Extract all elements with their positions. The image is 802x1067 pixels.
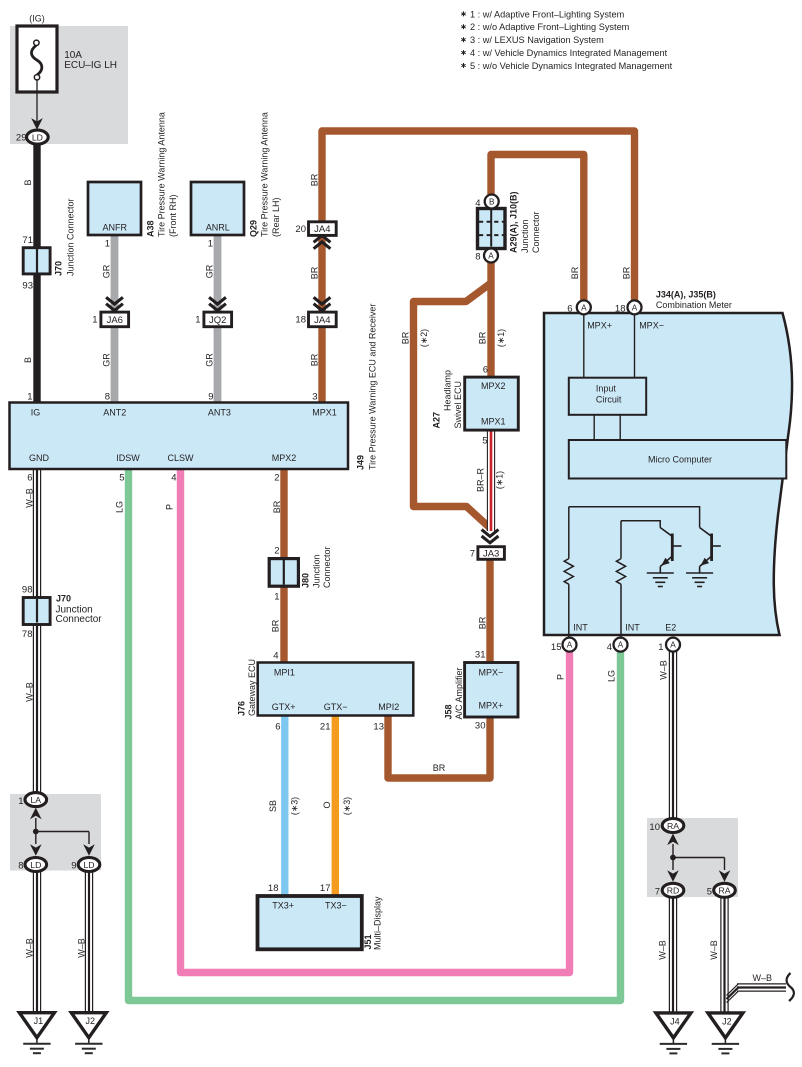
ground distribution gray block right — [647, 818, 738, 897]
splice wiring right — [672, 844, 674, 858]
svg-text:(∗1): (∗1) — [495, 471, 505, 489]
wire W-B branch from J2 wire — [737, 983, 786, 985]
svg-text:6: 6 — [275, 722, 280, 733]
svg-text:MPX2: MPX2 — [272, 453, 297, 463]
svg-text:1: 1 — [27, 392, 32, 403]
splice LD 8 — [25, 858, 47, 872]
wire P J49 CLSW to Combination Meter INT — [181, 468, 570, 973]
connector JA4 lower — [309, 312, 337, 327]
A/C Amplifier J58 — [465, 663, 518, 718]
svg-text:Circuit: Circuit — [596, 395, 622, 405]
svg-text:8: 8 — [475, 252, 480, 263]
svg-text:30: 30 — [475, 721, 486, 732]
svg-text:(∗3): (∗3) — [290, 797, 300, 815]
Multi-Display J51 — [258, 896, 362, 949]
svg-text:(Front RH): (Front RH) — [168, 194, 178, 237]
antenna ANRL Q29 — [191, 182, 244, 235]
svg-text:J34(A), J35(B): J34(A), J35(B) — [656, 290, 716, 300]
wire SB (*3) Gateway GTX+ to Multi-Display TX3+ — [281, 715, 288, 897]
svg-text:A: A — [618, 641, 624, 650]
svg-text:18: 18 — [268, 883, 279, 894]
svg-text:W–B: W–B — [659, 660, 669, 680]
svg-text:MPX2: MPX2 — [481, 381, 506, 391]
svg-text:MPI1: MPI1 — [274, 667, 295, 677]
splice RA 5 — [714, 883, 736, 897]
svg-text:(IG): (IG) — [29, 14, 45, 24]
svg-text:1: 1 — [208, 239, 213, 250]
connector JQ2 — [204, 312, 232, 327]
wire W-B J70 to splice LA — [33, 624, 40, 794]
svg-text:LG: LG — [115, 501, 125, 513]
svg-text:13: 13 — [373, 722, 384, 733]
fuse ECU-IG LH box — [17, 26, 57, 92]
svg-text:W–B: W–B — [709, 940, 719, 960]
internal wire to transistor Q2 — [569, 507, 700, 528]
svg-text:SB: SB — [268, 800, 278, 812]
svg-text:GTX−: GTX− — [324, 702, 348, 712]
splice RD 7 — [662, 883, 684, 897]
ground J2 right — [708, 1013, 743, 1038]
micro computer block — [569, 440, 787, 479]
wire BR J49 MPX2 via J80 to Gateway ECU MPI1 — [280, 468, 287, 663]
svg-text:J58: J58 — [444, 704, 454, 719]
svg-text:E2: E2 — [665, 623, 676, 633]
svg-text:3 : w/ LEXUS Navigation System: 3 : w/ LEXUS Navigation System — [470, 35, 604, 45]
svg-text:Combination Meter: Combination Meter — [656, 300, 732, 310]
svg-text:Connector: Connector — [322, 546, 332, 588]
svg-text:LA: LA — [30, 795, 41, 805]
svg-text:BR: BR — [478, 331, 488, 344]
svg-text:J70: J70 — [56, 594, 71, 604]
svg-text:4: 4 — [475, 198, 480, 209]
wire LG J49 IDSW to Combination Meter INT — [129, 468, 621, 1001]
svg-text:31: 31 — [475, 650, 486, 661]
svg-text:1: 1 — [274, 592, 279, 603]
svg-text:B: B — [23, 357, 33, 363]
wire BR junction connector B to Combination Meter MPX+ — [491, 155, 584, 305]
svg-text:GND: GND — [29, 453, 50, 463]
svg-text:W–B: W–B — [25, 682, 35, 702]
svg-text:2 : w/o Adaptive Front–Lightin: 2 : w/o Adaptive Front–Lighting System — [470, 22, 630, 32]
splice wiring left — [35, 818, 37, 832]
svg-text:MPX1: MPX1 — [312, 408, 337, 418]
pin circle 6 — [577, 300, 591, 314]
wire input to micro 2 — [619, 415, 621, 440]
svg-text:1: 1 — [105, 239, 110, 250]
svg-text:17: 17 — [320, 883, 331, 894]
svg-text:TX3−: TX3− — [325, 901, 347, 911]
svg-text:J2: J2 — [86, 1016, 96, 1026]
wire BR (*1) junction connector A to Headlamp Swivel ECU MPX2 — [487, 258, 494, 378]
svg-text:BR: BR — [478, 616, 488, 629]
junction connector A29(A) J10(B) grid — [478, 209, 506, 249]
svg-text:29: 29 — [16, 133, 27, 144]
svg-text:J76: J76 — [237, 701, 247, 716]
pin circle 1 — [666, 638, 680, 652]
svg-text:B: B — [489, 198, 495, 207]
svg-text:Tire Pressure Warning Antenna: Tire Pressure Warning Antenna — [157, 112, 167, 237]
svg-text:BR: BR — [401, 331, 411, 344]
svg-text:LG: LG — [607, 670, 617, 682]
svg-text:J70: J70 — [54, 261, 64, 276]
svg-text:MPX1: MPX1 — [481, 417, 506, 427]
svg-text:2: 2 — [274, 546, 279, 557]
svg-text:BR: BR — [570, 266, 580, 279]
continuation squiggle — [787, 973, 794, 1001]
wire W-B Combination Meter E2 to splice RA — [669, 651, 676, 819]
wire BR J49 MPX1 via JA4 to Combination Meter MPX- — [322, 131, 635, 403]
pin B circle — [485, 195, 499, 209]
ground Q1 — [647, 572, 674, 574]
wire BR JA3 to A/C Amplifier MPX- — [486, 557, 493, 663]
splice RA 10 — [662, 819, 684, 833]
svg-text:BR: BR — [622, 266, 632, 279]
pin circle 15 — [563, 638, 577, 652]
svg-text:GR: GR — [102, 264, 112, 278]
svg-text:A27: A27 — [432, 412, 442, 429]
svg-text:93: 93 — [22, 281, 33, 292]
svg-text:5 : w/o Vehicle Dynamics Integ: 5 : w/o Vehicle Dynamics Integrated Mana… — [470, 61, 673, 71]
wire input to micro 1 — [593, 415, 595, 440]
svg-text:BR: BR — [310, 266, 320, 279]
svg-text:Headlamp: Headlamp — [443, 370, 453, 411]
connector JA3 — [478, 547, 505, 560]
wire W-B splice LD to ground J2 — [85, 871, 92, 1013]
wire BR (*2) bypass loop to JA3 — [414, 283, 492, 528]
svg-text:6: 6 — [567, 304, 572, 315]
svg-text:J2: J2 — [722, 1016, 732, 1026]
svg-text:A29(A), J10(B): A29(A), J10(B) — [509, 191, 519, 253]
svg-text:(∗1): (∗1) — [496, 329, 506, 347]
svg-text:BR–R: BR–R — [476, 468, 486, 493]
svg-text:A38: A38 — [146, 220, 156, 237]
svg-text:J49: J49 — [356, 455, 366, 470]
ECU J49 Tire Pressure Warning ECU and Receiver — [10, 403, 349, 470]
arrow into JA4 lower — [314, 297, 331, 310]
svg-text:Micro Computer: Micro Computer — [648, 455, 712, 465]
svg-text:7: 7 — [470, 549, 475, 560]
ground J1 — [19, 1013, 54, 1038]
junction connector J70 lower — [23, 598, 50, 625]
svg-text:BR: BR — [272, 500, 282, 513]
resistor R2 — [620, 521, 622, 559]
svg-text:78: 78 — [22, 629, 33, 640]
svg-text:CLSW: CLSW — [167, 453, 194, 463]
svg-text:Input: Input — [596, 384, 617, 394]
svg-text:5: 5 — [119, 473, 124, 484]
svg-text:9: 9 — [71, 861, 76, 872]
svg-text:J4: J4 — [670, 1016, 680, 1026]
ground J4 — [656, 1013, 691, 1038]
wire W-B splice LD to ground J1 — [33, 871, 40, 1013]
svg-text:JA4: JA4 — [314, 224, 330, 235]
svg-text:4: 4 — [607, 642, 612, 653]
internal wire to transistor Q1 — [621, 521, 660, 528]
svg-text:J1: J1 — [34, 1016, 44, 1026]
svg-text:ECU–IG LH: ECU–IG LH — [64, 60, 117, 71]
svg-text:5: 5 — [482, 436, 487, 447]
notes legend — [463, 11, 465, 16]
svg-text:21: 21 — [320, 722, 331, 733]
svg-text:MPI2: MPI2 — [378, 702, 399, 712]
svg-text:A: A — [670, 641, 676, 650]
svg-text:JA4: JA4 — [314, 315, 330, 326]
svg-text:ANT2: ANT2 — [103, 408, 126, 418]
svg-text:P: P — [556, 674, 566, 680]
pin circle 4 — [614, 638, 628, 652]
arrow into JA3 — [482, 530, 499, 543]
svg-text:Swivel ECU: Swivel ECU — [453, 381, 463, 429]
svg-text:JA6: JA6 — [107, 315, 123, 326]
svg-text:4: 4 — [273, 651, 278, 662]
svg-text:JQ2: JQ2 — [209, 315, 226, 326]
svg-text:TX3+: TX3+ — [272, 901, 294, 911]
svg-text:4: 4 — [171, 473, 176, 484]
svg-text:MPX+: MPX+ — [479, 701, 504, 711]
transistor Q1 — [660, 528, 671, 536]
splice LD 9 — [78, 858, 100, 872]
power source gray block (IG) — [10, 26, 128, 144]
connector JA4 upper — [309, 222, 337, 236]
svg-text:RD: RD — [667, 886, 680, 896]
svg-text:LD: LD — [83, 860, 94, 870]
svg-text:Junction Connector: Junction Connector — [66, 198, 76, 276]
svg-text:A: A — [488, 252, 494, 261]
wire BR A/C Amplifier MPX+ to Gateway ECU MPI2 — [388, 716, 490, 778]
svg-text:18: 18 — [295, 315, 306, 326]
arrow into LD 8 — [30, 844, 42, 856]
svg-text:BR: BR — [433, 763, 446, 773]
svg-text:6: 6 — [27, 473, 32, 484]
svg-text:8: 8 — [18, 861, 23, 872]
svg-text:J80: J80 — [301, 573, 311, 588]
svg-text:B: B — [23, 179, 33, 185]
svg-text:20: 20 — [295, 224, 306, 235]
svg-text:(∗3): (∗3) — [342, 797, 352, 815]
ECU A27 Headlamp Swivel — [465, 377, 519, 430]
svg-text:W–B: W–B — [77, 938, 87, 958]
svg-text:W–B: W–B — [658, 940, 668, 960]
wire O (*3) Gateway GTX- to Multi-Display TX3- — [332, 715, 339, 897]
svg-text:ANT3: ANT3 — [208, 408, 231, 418]
svg-text:A: A — [632, 304, 638, 313]
svg-text:IDSW: IDSW — [116, 453, 140, 463]
svg-text:Q29: Q29 — [249, 220, 259, 237]
svg-text:Tire Pressure Warning ECU and: Tire Pressure Warning ECU and Receiver — [368, 304, 378, 470]
svg-text:Junction: Junction — [520, 219, 530, 253]
svg-text:6: 6 — [483, 365, 488, 376]
svg-text:LD: LD — [32, 132, 43, 142]
Combination Meter J34/J35 body — [544, 313, 792, 635]
svg-text:7: 7 — [655, 887, 660, 898]
svg-text:98: 98 — [22, 585, 33, 596]
svg-text:ANFR: ANFR — [102, 223, 127, 233]
svg-text:RA: RA — [667, 821, 679, 831]
splice LA — [25, 793, 47, 807]
svg-text:A: A — [581, 304, 587, 313]
ground J2 left — [71, 1013, 106, 1038]
svg-text:ANRL: ANRL — [206, 223, 230, 233]
svg-text:W–B: W–B — [25, 938, 35, 958]
ground Q2 — [686, 572, 713, 574]
svg-text:GR: GR — [205, 264, 215, 278]
fuse element — [31, 45, 41, 75]
ground distribution gray block left — [10, 794, 101, 871]
svg-text:3: 3 — [312, 392, 317, 403]
wire W-B splice RD to ground J4 — [669, 896, 676, 1013]
svg-text:9: 9 — [208, 392, 213, 403]
svg-text:Gateway ECU: Gateway ECU — [247, 659, 257, 716]
svg-text:BR: BR — [310, 173, 320, 186]
svg-text:4 : w/ Vehicle Dynamics Integr: 4 : w/ Vehicle Dynamics Integrated Manag… — [470, 48, 668, 58]
connector JA6 — [101, 312, 129, 327]
svg-text:MPX+: MPX+ — [587, 321, 612, 331]
svg-text:RA: RA — [718, 886, 730, 896]
svg-text:8: 8 — [105, 392, 110, 403]
wire B (black) fuse to J49 IG — [33, 141, 40, 403]
arrow into RD 7 — [667, 870, 679, 882]
svg-text:LD: LD — [30, 860, 41, 870]
svg-text:(Rear LH): (Rear LH) — [271, 197, 281, 237]
svg-text:O: O — [322, 801, 332, 808]
wire W-B J49 GND to junction connector J70 — [33, 468, 40, 598]
arrow up to RA — [667, 834, 679, 846]
svg-text:71: 71 — [22, 235, 33, 246]
svg-text:18: 18 — [615, 304, 626, 315]
svg-text:10: 10 — [649, 822, 660, 833]
svg-text:15: 15 — [551, 642, 562, 653]
wire MPX+ internal — [583, 313, 585, 378]
arrow into JA4 upper — [314, 236, 331, 249]
svg-text:Tire Pressure Warning Antenna: Tire Pressure Warning Antenna — [260, 112, 270, 237]
svg-text:A/C Amplifier: A/C Amplifier — [454, 667, 464, 719]
wire GR ANRL to J49 ANT3 — [214, 234, 222, 403]
svg-text:(∗2): (∗2) — [419, 329, 429, 347]
wire W-B splice RA to ground J2 right — [721, 896, 728, 1013]
svg-text:W–B: W–B — [25, 488, 35, 508]
svg-text:GR: GR — [102, 353, 112, 367]
arrow into LD — [31, 118, 43, 130]
svg-text:BR: BR — [271, 619, 281, 632]
svg-text:1: 1 — [18, 796, 23, 807]
svg-text:INT: INT — [625, 623, 640, 633]
input circuit block — [569, 378, 646, 415]
svg-text:GR: GR — [205, 353, 215, 367]
svg-text:J51: J51 — [363, 934, 373, 949]
svg-text:W–B: W–B — [753, 973, 773, 983]
svg-text:BR: BR — [310, 353, 320, 366]
svg-text:1: 1 — [658, 642, 663, 653]
arrow into JA6 — [106, 297, 123, 310]
resistor R1 — [568, 507, 570, 559]
svg-text:2: 2 — [274, 473, 279, 484]
wire GR ANFR to J49 ANT2 — [111, 234, 119, 403]
arrow into JQ2 — [209, 297, 226, 310]
pin A circle — [484, 249, 498, 263]
wire BR-R (*1) Headlamp Swivel ECU MPX1 to JA3 — [487, 430, 494, 531]
transistor Q2 — [700, 528, 711, 536]
svg-text:Connector: Connector — [531, 211, 541, 253]
svg-text:P: P — [165, 504, 175, 510]
svg-text:MPX−: MPX− — [639, 321, 664, 331]
svg-text:IG: IG — [31, 408, 41, 418]
wire fuse to connector LD — [36, 79, 38, 127]
svg-text:Connector: Connector — [56, 614, 103, 625]
svg-text:A: A — [567, 641, 573, 650]
svg-text:INT: INT — [573, 623, 588, 633]
svg-text:JA3: JA3 — [483, 548, 499, 559]
connector 29 LD — [27, 130, 49, 144]
arrow into LD 9 — [83, 844, 95, 856]
arrow up to LA — [30, 808, 42, 820]
pin circle 18 — [628, 300, 642, 314]
svg-text:GTX+: GTX+ — [272, 702, 296, 712]
ECU J76 Gateway — [258, 663, 414, 716]
junction connector J70 upper — [23, 248, 50, 274]
svg-text:Junction: Junction — [312, 554, 322, 588]
svg-text:1: 1 — [92, 315, 97, 326]
svg-text:1: 1 — [195, 315, 200, 326]
svg-text:1 : w/ Adaptive Front–Lighting: 1 : w/ Adaptive Front–Lighting System — [470, 9, 625, 19]
arrow into RA 5 — [719, 870, 731, 882]
wire MPX- internal — [634, 313, 636, 378]
svg-text:MPX−: MPX− — [479, 668, 504, 678]
antenna ANFR A38 — [88, 182, 141, 235]
svg-text:5: 5 — [707, 887, 712, 898]
junction connector J80 — [269, 559, 298, 587]
svg-text:Multi–Display: Multi–Display — [373, 896, 383, 950]
